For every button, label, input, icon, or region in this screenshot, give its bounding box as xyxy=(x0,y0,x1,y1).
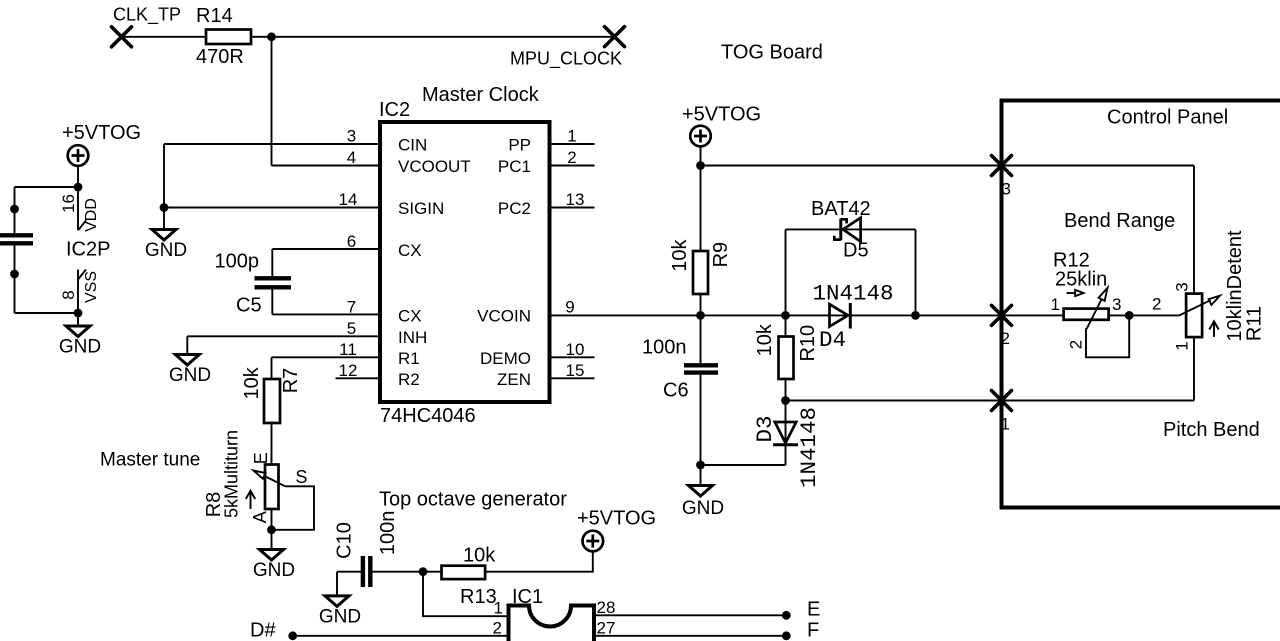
IC2 pin 14 SIGIN xyxy=(339,190,445,218)
svg-text:D#: D# xyxy=(250,620,276,641)
svg-text:3: 3 xyxy=(1112,295,1121,314)
svg-text:10: 10 xyxy=(566,340,585,359)
junction xyxy=(696,161,705,170)
wire C6 bottom lead xyxy=(700,375,702,486)
svg-text:GND: GND xyxy=(682,498,724,519)
svg-text:1: 1 xyxy=(567,127,576,146)
svg-text:14: 14 xyxy=(339,190,358,209)
svg-text:10k: 10k xyxy=(669,238,691,271)
IC2 pin 10 DEMO xyxy=(480,340,595,368)
svg-text:+5VTOG: +5VTOG xyxy=(62,122,141,144)
svg-text:C5: C5 xyxy=(236,295,262,317)
svg-text:100n: 100n xyxy=(377,511,399,556)
svg-text:13: 13 xyxy=(566,190,585,209)
svg-text:Bend Range: Bend Range xyxy=(1064,210,1175,232)
svg-text:INH: INH xyxy=(398,328,427,347)
wire pin 11 xyxy=(272,356,381,358)
svg-text:R11: R11 xyxy=(1244,306,1266,341)
wire bottom branch xyxy=(15,312,79,314)
wire C5 bottom lead xyxy=(271,289,273,314)
power +5VTOG (IC1) xyxy=(577,508,656,552)
svg-text:100p: 100p xyxy=(215,251,260,273)
wire D5 loop left xyxy=(785,229,787,315)
svg-text:IC1: IC1 xyxy=(512,586,543,608)
wire R7 top lead xyxy=(271,357,273,379)
wire R12 wiper loop xyxy=(1086,315,1129,357)
wire pin 7 xyxy=(272,313,380,315)
svg-text:1: 1 xyxy=(1172,341,1191,350)
wire VCOIN bus xyxy=(550,314,1064,316)
svg-text:+5VTOG: +5VTOG xyxy=(577,508,656,530)
IC2 pin 1 PP xyxy=(508,127,594,155)
wire R12 pin3 to R11 pin2 xyxy=(1109,314,1180,316)
IC2 pin 7 CX xyxy=(347,297,422,325)
wire R14 to MPU_CLOCK xyxy=(251,36,615,38)
svg-text:R7: R7 xyxy=(280,368,302,394)
wire R11 top lead xyxy=(1193,166,1195,294)
svg-text:Control Panel: Control Panel xyxy=(1107,107,1228,129)
junction xyxy=(781,311,790,320)
svg-text:Pitch Bend: Pitch Bend xyxy=(1163,419,1260,441)
svg-text:A: A xyxy=(250,511,270,523)
capacitor C6 100n xyxy=(642,337,718,402)
junction xyxy=(419,567,428,576)
svg-text:C10: C10 xyxy=(333,522,355,559)
wire pin 5 xyxy=(187,335,380,337)
wire power to R9 xyxy=(700,146,702,251)
junction xyxy=(74,183,83,192)
IC2 pin 2 PC1 xyxy=(498,148,595,176)
wire R8 bottom to GND xyxy=(271,509,273,550)
junction xyxy=(267,32,276,41)
svg-text:SIGIN: SIGIN xyxy=(398,199,444,218)
svg-text:470R: 470R xyxy=(196,46,244,68)
ground xyxy=(319,596,361,628)
svg-text:16: 16 xyxy=(59,194,78,213)
capacitor C5 100p xyxy=(215,251,292,317)
capacitor C10 100n xyxy=(333,511,399,587)
svg-text:5kMultiturn: 5kMultiturn xyxy=(221,430,241,518)
control panel box xyxy=(1002,101,1280,508)
potentiometer R12 25klin xyxy=(1051,250,1122,350)
svg-text:D3: D3 xyxy=(752,415,778,442)
svg-text:C6: C6 xyxy=(663,380,689,402)
svg-text:9: 9 xyxy=(565,297,574,316)
svg-text:10k: 10k xyxy=(463,545,496,567)
wire R13 to power xyxy=(485,552,593,572)
svg-text:CIN: CIN xyxy=(398,136,427,155)
junction xyxy=(911,311,920,320)
svg-text:R1: R1 xyxy=(398,349,420,368)
power +5VTOG (R9) xyxy=(682,104,761,147)
wire left branch xyxy=(15,186,79,188)
svg-text:10k: 10k xyxy=(754,323,776,356)
svg-text:12: 12 xyxy=(339,361,358,380)
svg-text:GND: GND xyxy=(169,365,211,386)
junction xyxy=(10,270,19,279)
connector pin 3 xyxy=(992,156,1012,199)
node F xyxy=(782,620,819,641)
node MPU_CLOCK xyxy=(510,27,625,70)
resistor R13 10k xyxy=(442,545,497,609)
svg-text:GND: GND xyxy=(145,240,187,261)
svg-text:1: 1 xyxy=(494,599,503,618)
svg-text:1: 1 xyxy=(1051,295,1060,314)
svg-text:2: 2 xyxy=(1066,340,1085,349)
junction xyxy=(267,525,276,534)
junction xyxy=(10,205,19,214)
junction xyxy=(1125,311,1134,320)
IC2 pin 6 CX xyxy=(347,232,422,260)
node D# xyxy=(250,620,509,641)
connector pin 1 xyxy=(992,391,1012,434)
svg-text:VCOOUT: VCOOUT xyxy=(398,157,471,176)
svg-text:GND: GND xyxy=(253,560,295,581)
svg-text:25klin: 25klin xyxy=(1055,269,1107,291)
svg-text:5: 5 xyxy=(347,319,356,338)
wire D5 loop top xyxy=(786,228,916,230)
svg-text:8: 8 xyxy=(59,290,78,299)
wire pin 8 xyxy=(77,270,79,327)
diode D5 BAT42 xyxy=(811,198,871,262)
svg-text:+5VTOG: +5VTOG xyxy=(682,104,761,126)
IC IC1 (top octave generator) xyxy=(509,586,595,641)
svg-text:11: 11 xyxy=(339,340,357,359)
wire pin 14 xyxy=(164,207,380,209)
IC2 pin 5 INH xyxy=(347,319,428,347)
svg-text:R14: R14 xyxy=(196,5,233,27)
wire pin 3 xyxy=(164,143,380,145)
diode D4 1N4148 xyxy=(813,281,894,353)
wire R7 to R8 xyxy=(271,423,273,465)
wire pin5 down xyxy=(186,336,188,354)
svg-text:10k: 10k xyxy=(241,366,263,399)
wire to control panel pin 1 xyxy=(786,400,1195,402)
svg-text:PP: PP xyxy=(508,136,531,155)
svg-text:74HC4046: 74HC4046 xyxy=(380,405,476,427)
wire junction to IC1 pin 1 xyxy=(423,572,509,617)
ground xyxy=(682,486,724,520)
svg-text:3: 3 xyxy=(1002,180,1011,199)
wire C10 right lead xyxy=(372,571,442,573)
svg-text:2: 2 xyxy=(1001,329,1010,348)
svg-text:2: 2 xyxy=(1152,295,1161,314)
svg-text:Master tune: Master tune xyxy=(100,450,200,471)
svg-text:28: 28 xyxy=(597,598,616,617)
node CLK_TP xyxy=(112,5,182,47)
svg-text:R9: R9 xyxy=(710,242,732,268)
svg-text:CX: CX xyxy=(398,306,422,325)
svg-text:1N4148: 1N4148 xyxy=(813,281,894,307)
diode D3 1N4148 xyxy=(752,401,822,489)
ground xyxy=(145,230,187,262)
IC2 pin 4 VCOOUT xyxy=(347,148,471,176)
IC2 pin 9 VCOIN xyxy=(477,297,575,325)
svg-text:E: E xyxy=(807,599,820,621)
svg-text:R10: R10 xyxy=(797,325,819,362)
svg-text:3: 3 xyxy=(347,127,356,146)
svg-text:3: 3 xyxy=(1172,282,1191,291)
svg-text:DEMO: DEMO xyxy=(480,349,531,368)
wire CLK_TP to R14 xyxy=(122,36,207,38)
svg-text:27: 27 xyxy=(597,619,616,638)
wire D3 bottom to GND junction xyxy=(701,464,786,466)
svg-text:IC2: IC2 xyxy=(379,99,410,121)
ground xyxy=(169,355,211,387)
IC1 pin 28 xyxy=(594,598,786,617)
wire cap top lead xyxy=(14,187,16,233)
IC U IC2 74HC4046 xyxy=(379,99,550,427)
IC2 pin 3 CIN xyxy=(347,127,428,155)
wire R11 bottom lead xyxy=(1193,337,1195,400)
svg-text:2: 2 xyxy=(493,619,502,638)
junction xyxy=(696,311,705,320)
IC2 pin 11 R1 xyxy=(339,340,420,368)
svg-text:CLK_TP: CLK_TP xyxy=(113,5,181,26)
svg-text:R13: R13 xyxy=(460,586,497,608)
svg-text:D4: D4 xyxy=(819,327,846,353)
svg-text:CX: CX xyxy=(398,241,422,260)
wire net to control panel pin 3 xyxy=(701,165,1195,167)
IC2 pin 15 ZEN xyxy=(497,361,595,389)
svg-text:D5: D5 xyxy=(843,240,869,262)
svg-text:VSS: VSS xyxy=(83,271,100,303)
svg-text:S: S xyxy=(295,467,307,487)
wire C10 left down xyxy=(336,572,338,596)
wire pin 4 xyxy=(272,165,381,167)
svg-text:TOG Board: TOG Board xyxy=(721,42,823,64)
capacitor (IC2P decoupling) xyxy=(0,235,33,243)
svg-text:6: 6 xyxy=(347,232,356,251)
power +5VTOG xyxy=(62,122,141,166)
svg-text:1N4148: 1N4148 xyxy=(796,407,822,488)
svg-text:100n: 100n xyxy=(642,337,687,359)
svg-text:2: 2 xyxy=(567,148,576,167)
wire C5 top lead xyxy=(271,249,273,277)
svg-text:PC2: PC2 xyxy=(498,199,531,218)
wire C10 left lead xyxy=(337,571,361,573)
svg-text:R2: R2 xyxy=(398,370,420,389)
svg-text:Master Clock: Master Clock xyxy=(422,84,540,106)
potentiometer R8 5kMultiturn xyxy=(203,430,307,523)
IC1 pin 27 xyxy=(594,619,786,638)
wire R9 bottom to bus and C6 xyxy=(700,294,702,364)
potentiometer R11 10klinDetent xyxy=(1152,230,1265,351)
wire R8 wiper S loop xyxy=(272,486,315,530)
svg-text:GND: GND xyxy=(319,607,361,628)
IC2 pin 12 R2 xyxy=(336,361,420,389)
junction xyxy=(160,203,169,212)
resistor R7 10k xyxy=(241,366,302,423)
wire pin3 corner down to GND xyxy=(163,144,165,230)
IC IC2P power pins xyxy=(59,194,111,303)
ground xyxy=(253,550,295,582)
wire junction down to pin 4 xyxy=(271,37,273,166)
junction xyxy=(74,309,83,318)
svg-text:ZEN: ZEN xyxy=(497,370,531,389)
svg-text:1: 1 xyxy=(1001,415,1010,434)
resistor R9 10k xyxy=(669,238,732,294)
svg-text:VCOIN: VCOIN xyxy=(477,306,531,325)
junction xyxy=(696,461,705,470)
svg-text:E: E xyxy=(251,452,271,464)
svg-text:IC2P: IC2P xyxy=(66,239,110,261)
connector pin 2 xyxy=(992,305,1012,348)
svg-text:PC1: PC1 xyxy=(498,157,531,176)
svg-text:VDD: VDD xyxy=(83,198,100,232)
wire power to pin16 xyxy=(77,166,79,230)
svg-text:GND: GND xyxy=(59,337,101,358)
junction xyxy=(781,396,790,405)
resistor R14 470R xyxy=(196,5,251,68)
IC2 pin 13 PC2 xyxy=(498,190,595,218)
ground xyxy=(59,326,101,358)
svg-text:F: F xyxy=(807,620,819,641)
node E xyxy=(782,599,820,621)
wire pin 6 xyxy=(272,248,380,250)
svg-text:4: 4 xyxy=(347,148,356,167)
svg-text:MPU_CLOCK: MPU_CLOCK xyxy=(510,49,622,70)
svg-text:Top octave generator: Top octave generator xyxy=(379,489,567,511)
wire cap bottom lead xyxy=(14,245,16,313)
wire D5 loop right xyxy=(915,229,917,315)
resistor R10 10k xyxy=(754,315,819,400)
svg-text:15: 15 xyxy=(566,361,585,380)
